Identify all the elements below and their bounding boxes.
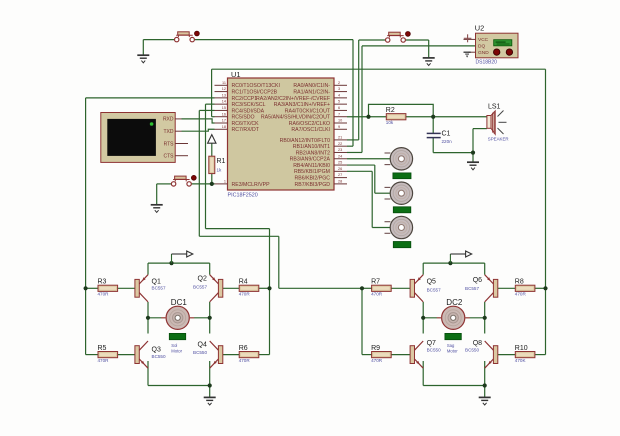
svg-text:470R: 470R (371, 358, 383, 363)
svg-text:RC7/RX/DT: RC7/RX/DT (232, 127, 260, 133)
svg-text:RA5/AN4/SS/HLVDIN/C2OUT: RA5/AN4/SS/HLVDIN/C2OUT (261, 115, 331, 121)
svg-text:4: 4 (338, 93, 340, 97)
svg-text:RB6/KBI2/PGC: RB6/KBI2/PGC (295, 176, 331, 182)
svg-text:RC6/TX/CK: RC6/TX/CK (232, 121, 260, 127)
svg-text:470R: 470R (98, 358, 110, 363)
svg-text:10k: 10k (386, 120, 394, 125)
svg-text:23: 23 (338, 148, 342, 152)
svg-text:RC0/T1OSO/T13CKI: RC0/T1OSO/T13CKI (232, 83, 280, 89)
svg-text:RXD: RXD (163, 117, 174, 123)
svg-text:BC557: BC557 (465, 286, 479, 291)
svg-text:RB3/AN9/CCP2A: RB3/AN9/CCP2A (290, 157, 331, 163)
svg-text:1k: 1k (217, 167, 223, 172)
svg-text:R9: R9 (371, 345, 380, 352)
svg-text:Q7: Q7 (427, 340, 436, 347)
svg-text:2: 2 (338, 81, 340, 85)
svg-text:RA7/OSC1/CLKI: RA7/OSC1/CLKI (291, 127, 330, 133)
svg-text:15: 15 (222, 106, 226, 110)
svg-text:DS18B20: DS18B20 (476, 59, 498, 65)
svg-text:R5: R5 (98, 345, 107, 352)
svg-text:C1: C1 (442, 131, 451, 138)
svg-text:BC550: BC550 (152, 354, 166, 359)
svg-text:SPEAKER: SPEAKER (488, 136, 509, 141)
svg-text:RA2/AN2/C2IN+/VREF-/CVREF: RA2/AN2/C2IN+/VREF-/CVREF (256, 96, 330, 102)
svg-text:BC550: BC550 (427, 348, 441, 353)
svg-text:16: 16 (222, 112, 226, 116)
svg-text:470R: 470R (515, 292, 527, 297)
svg-text:470R: 470R (239, 292, 251, 297)
svg-text:9: 9 (338, 125, 340, 129)
svg-text:RA1/AN1/C2IN-: RA1/AN1/C2IN- (293, 89, 330, 95)
svg-text:RTS: RTS (164, 141, 175, 147)
svg-text:1: 1 (224, 179, 226, 183)
svg-text:BC557: BC557 (193, 285, 207, 290)
svg-text:RA4/T0CKI/C1OUT: RA4/T0CKI/C1OUT (285, 108, 331, 114)
svg-text:R2: R2 (386, 107, 395, 114)
svg-text:RC4/SDI/SDA: RC4/SDI/SDA (232, 108, 265, 114)
svg-text:17: 17 (222, 119, 226, 123)
svg-text:DC2: DC2 (446, 298, 463, 307)
svg-text:R1: R1 (217, 158, 226, 165)
svg-text:22: 22 (338, 142, 342, 146)
svg-text:Q8: Q8 (473, 340, 482, 347)
svg-text:220n: 220n (442, 139, 453, 144)
svg-text:Sol: Sol (171, 343, 177, 348)
svg-text:RB7/KBI3/PGD: RB7/KBI3/PGD (295, 182, 331, 188)
svg-text:470K: 470K (515, 358, 527, 363)
svg-text:BC557: BC557 (427, 288, 441, 293)
svg-text:R10: R10 (515, 345, 528, 352)
svg-text:Q3: Q3 (152, 347, 161, 354)
svg-text:14: 14 (222, 100, 226, 104)
svg-text:U1: U1 (231, 70, 240, 79)
svg-text:470R: 470R (98, 292, 110, 297)
svg-text:RB4/AN11/KBI0: RB4/AN11/KBI0 (293, 163, 330, 169)
svg-text:470R: 470R (371, 292, 383, 297)
svg-text:RE3/MCLR/VPP: RE3/MCLR/VPP (232, 182, 271, 188)
svg-text:Motor: Motor (171, 349, 182, 354)
svg-text:11: 11 (222, 81, 226, 85)
svg-text:R7: R7 (371, 279, 380, 286)
svg-text:13: 13 (222, 93, 226, 97)
svg-text:RA0/AN0/C1IN-: RA0/AN0/C1IN- (293, 83, 330, 89)
svg-text:Motor: Motor (447, 349, 458, 354)
svg-text:RB0/AN12/INT0/FLT0: RB0/AN12/INT0/FLT0 (280, 138, 330, 144)
svg-text:26: 26 (338, 167, 342, 171)
svg-text:TXD: TXD (164, 129, 174, 135)
svg-text:RC3/SCK/SCL: RC3/SCK/SCL (232, 102, 266, 108)
svg-text:RC5/SDO: RC5/SDO (232, 115, 255, 121)
svg-text:7: 7 (338, 112, 340, 116)
svg-text:DC1: DC1 (171, 298, 188, 307)
svg-text:21: 21 (338, 136, 342, 140)
svg-text:RC1/T1OSI/CCP2B: RC1/T1OSI/CCP2B (232, 89, 278, 95)
svg-text:R6: R6 (239, 345, 248, 352)
svg-text:27: 27 (338, 173, 342, 177)
svg-text:BC557: BC557 (152, 286, 166, 291)
svg-text:10: 10 (338, 119, 342, 123)
svg-text:GND: GND (478, 50, 489, 56)
svg-text:3: 3 (338, 87, 340, 91)
svg-text:6: 6 (338, 106, 340, 110)
svg-text:25: 25 (338, 161, 342, 165)
svg-text:Q1: Q1 (152, 278, 161, 285)
svg-text:Q6: Q6 (473, 277, 482, 284)
svg-text:Q5: Q5 (427, 278, 436, 285)
svg-text:RB1/AN10/INT1: RB1/AN10/INT1 (293, 144, 330, 150)
svg-text:RC2/CCP1: RC2/CCP1 (232, 96, 258, 102)
svg-text:CTS: CTS (164, 154, 175, 160)
svg-text:Q2: Q2 (198, 276, 207, 283)
svg-text:12: 12 (222, 87, 226, 91)
svg-text:28: 28 (338, 179, 342, 183)
svg-text:RA3/AN3/C1IN+/VREF+: RA3/AN3/C1IN+/VREF+ (274, 102, 330, 108)
svg-text:RB2/AN8/INT2: RB2/AN8/INT2 (296, 150, 330, 156)
svg-text:VCC: VCC (478, 37, 489, 43)
svg-text:BC550: BC550 (193, 350, 207, 355)
svg-text:470R: 470R (239, 358, 251, 363)
svg-text:LS1: LS1 (488, 103, 501, 110)
svg-text:U2: U2 (475, 24, 484, 33)
svg-text:BC550: BC550 (465, 348, 479, 353)
svg-text:5: 5 (338, 100, 340, 104)
svg-text:Q4: Q4 (198, 341, 207, 348)
svg-text:R8: R8 (515, 279, 524, 286)
svg-text:RA6/OSC2/CLKO: RA6/OSC2/CLKO (289, 121, 330, 127)
svg-text:RB5/KBI1/PGM: RB5/KBI1/PGM (294, 169, 330, 175)
svg-text:R4: R4 (239, 279, 248, 286)
svg-text:R3: R3 (98, 279, 107, 286)
svg-text:Sag: Sag (447, 343, 455, 348)
svg-text:24: 24 (338, 154, 342, 158)
svg-text:DQ: DQ (478, 44, 485, 50)
svg-text:18: 18 (222, 125, 226, 129)
svg-text:PIC18F2520: PIC18F2520 (228, 193, 258, 199)
